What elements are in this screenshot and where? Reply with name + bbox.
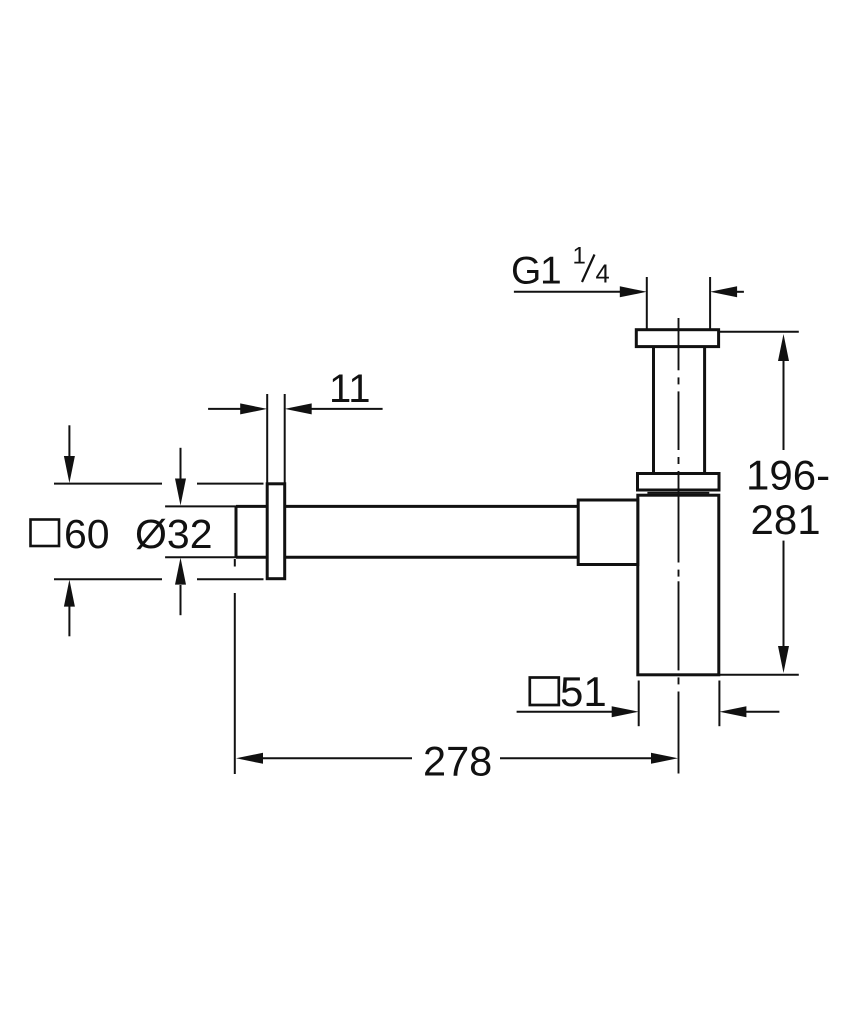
centerline of trap body (dash-dot), segment 1 — [678, 318, 680, 370]
dimension 51 line left segment with right arrow — [517, 711, 613, 713]
centerline dot — [678, 377, 680, 384]
wall escutcheon flange (edge view) — [267, 484, 285, 579]
dimension 278 line with left arrow — [262, 757, 412, 759]
vertical inlet pipe right wall — [703, 347, 706, 474]
horizontal outlet pipe bottom edge (right of wall flange) — [285, 556, 579, 559]
dimension 32 up arrow — [180, 585, 182, 615]
centerline segment 5 — [678, 692, 680, 774]
dimension 11 line right segment with left arrow — [311, 408, 383, 410]
svg-text:Ø32: Ø32 — [135, 511, 213, 557]
bottom flange (union nut) of vertical pipe — [638, 474, 720, 491]
svg-text:281: 281 — [751, 496, 821, 543]
dimension 51 extension line right (below cup) — [718, 681, 720, 727]
inlet thread extension line left — [646, 277, 648, 330]
dimension 278 extension line at pipe end — [234, 559, 236, 567]
dimension 11 extension line left (above flange) — [266, 394, 268, 484]
horizontal outlet pipe top edge (left of wall flange) — [236, 505, 267, 508]
dimension square-60 symbol — [31, 520, 60, 547]
dimension square-51 symbol — [530, 678, 559, 706]
dimension 196-281 top extension line — [719, 331, 799, 333]
dimension diameter-32 text — [135, 511, 213, 557]
dimension 196-281 bottom extension line (cup bottom extended) — [719, 674, 799, 676]
compression nut joining pipe to cup — [578, 500, 638, 565]
centerline segment 4 — [678, 581, 680, 670]
inlet thread extension line right — [709, 277, 711, 330]
svg-text:1: 1 — [540, 250, 562, 293]
dimension 11 extension line right (above flange) — [284, 394, 286, 484]
centerline segment 3 — [678, 471, 680, 563]
top flange of vertical inlet pipe — [636, 330, 718, 347]
dimension 60 down arrow — [68, 425, 70, 457]
dimension 196-281 vertical line lower with down arrow — [783, 541, 785, 646]
dimension 11 line left segment with right arrow — [208, 408, 241, 410]
dimension G1 1/4 text — [511, 243, 610, 293]
horizontal outlet pipe top edge (right of wall flange) — [285, 505, 579, 508]
dimension 32 down arrow — [180, 448, 182, 479]
dimension G1 1/4 line right segment with left arrow — [736, 291, 744, 293]
dimension 51 line right segment with left arrow — [746, 711, 779, 713]
svg-text:196-: 196- — [746, 451, 830, 498]
dimension 278 line with right arrow — [500, 757, 652, 759]
svg-text:1: 1 — [573, 243, 586, 270]
dimension 196-281 vertical line upper with up arrow — [783, 360, 785, 450]
horizontal pipe open end cap — [235, 506, 238, 557]
dimension G1 1/4 line left segment with right arrow — [514, 291, 621, 293]
svg-text:60: 60 — [64, 511, 110, 557]
centerline dot — [678, 677, 680, 684]
flange top extension line segments — [54, 483, 162, 485]
pipe bottom extension line — [165, 556, 236, 558]
fraction slash of G1 1/4 — [582, 255, 595, 283]
dimension 51 extension line left (below cup) — [638, 681, 640, 727]
centerline dot — [678, 457, 680, 464]
centerline segment 2 — [678, 391, 680, 450]
centerline dot — [678, 570, 680, 577]
svg-text:278: 278 — [423, 737, 492, 784]
flange bottom extension line segments — [54, 578, 162, 580]
svg-text:51: 51 — [560, 668, 607, 715]
svg-text:G: G — [511, 250, 541, 293]
svg-text:4: 4 — [596, 261, 610, 289]
vertical inlet pipe left wall — [652, 347, 655, 474]
svg-text:11: 11 — [329, 367, 371, 411]
pipe top extension line — [165, 505, 236, 507]
dimension 60 up arrow — [68, 606, 70, 636]
horizontal outlet pipe bottom edge (left of wall flange) — [236, 556, 267, 559]
dimension 278 extension line lower part — [234, 593, 236, 774]
dimension 196-281 text — [746, 451, 830, 543]
seal ring line under flange — [647, 492, 709, 494]
trap body cup — [638, 495, 719, 675]
